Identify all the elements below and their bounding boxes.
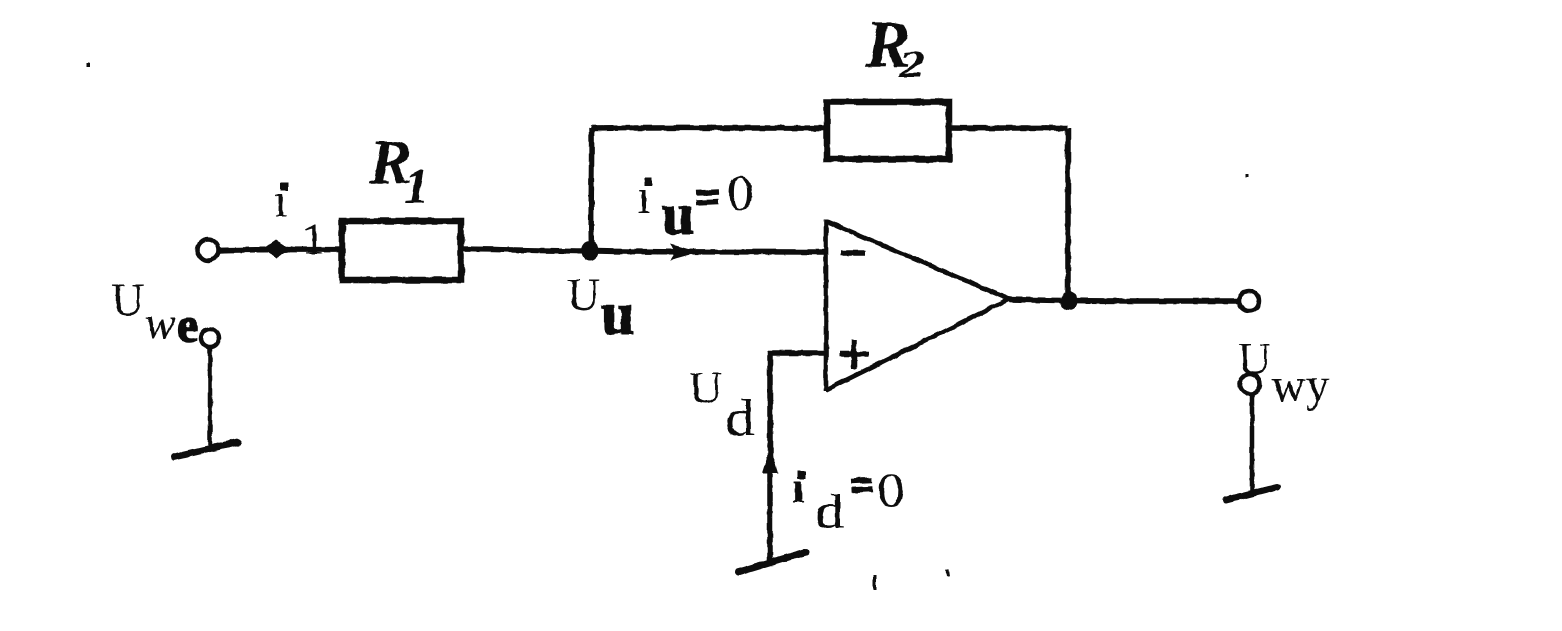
tick mark 1 bottom xyxy=(874,575,877,590)
output node junction dot xyxy=(1061,292,1078,311)
speck right xyxy=(1245,174,1248,178)
node Uu junction dot xyxy=(582,241,599,261)
wire op-amp + input to vertical xyxy=(770,353,826,564)
wire node to op-amp inverting input xyxy=(591,251,826,252)
wire R1 to node Uu xyxy=(460,249,591,251)
Uwy terminal circle xyxy=(1240,374,1260,394)
output terminal circle xyxy=(1239,291,1259,311)
ground under Uwy xyxy=(1226,487,1277,500)
feedback wire down to output node xyxy=(1065,128,1071,301)
op-amp plus sign xyxy=(840,340,869,369)
svg-text:w: w xyxy=(145,297,176,348)
svg-text:U: U xyxy=(689,362,722,413)
arrow id up on vertical wire xyxy=(762,448,778,473)
speck top-left xyxy=(86,63,90,67)
output wire from op-amp apex xyxy=(1009,300,1238,302)
svg-text:ı: ı xyxy=(637,168,651,224)
tick mark 2 bottom xyxy=(947,570,948,576)
svg-text:U: U xyxy=(567,269,600,320)
svg-text:u: u xyxy=(662,182,694,247)
svg-text:d: d xyxy=(725,390,755,447)
svg-text:wy: wy xyxy=(1271,359,1330,412)
svg-text:d: d xyxy=(815,483,844,539)
wire Uwy to ground xyxy=(1250,395,1255,492)
svg-text:0: 0 xyxy=(877,464,905,517)
svg-text:e: e xyxy=(177,299,198,352)
feedback wire up from node xyxy=(588,128,594,251)
arrow iu on wire xyxy=(670,244,699,260)
resistor R2 xyxy=(827,102,949,159)
svg-text:ı: ı xyxy=(274,175,287,226)
svg-text:U: U xyxy=(111,274,144,325)
svg-text:ı: ı xyxy=(792,463,804,512)
input terminal circle xyxy=(198,240,219,261)
wire R2 to right vertical xyxy=(949,125,1068,131)
op-amp minus sign xyxy=(840,250,865,256)
svg-text:2: 2 xyxy=(898,44,925,86)
arrow i1 on input wire xyxy=(263,240,291,258)
wire Uwe to ground xyxy=(208,347,213,448)
feedback wire top horizontal to R2 xyxy=(591,125,827,131)
resistor R1 xyxy=(342,221,461,280)
wire input to R1 xyxy=(218,250,341,251)
svg-text:1: 1 xyxy=(404,158,429,214)
svg-text:u: u xyxy=(601,281,634,347)
svg-text:0: 0 xyxy=(727,164,754,220)
Uwe terminal circle xyxy=(201,329,219,347)
op-amp U1 triangle xyxy=(826,219,1009,391)
ground under Uwe xyxy=(174,442,238,457)
ground under + input xyxy=(739,552,806,572)
svg-text:1: 1 xyxy=(302,213,325,264)
